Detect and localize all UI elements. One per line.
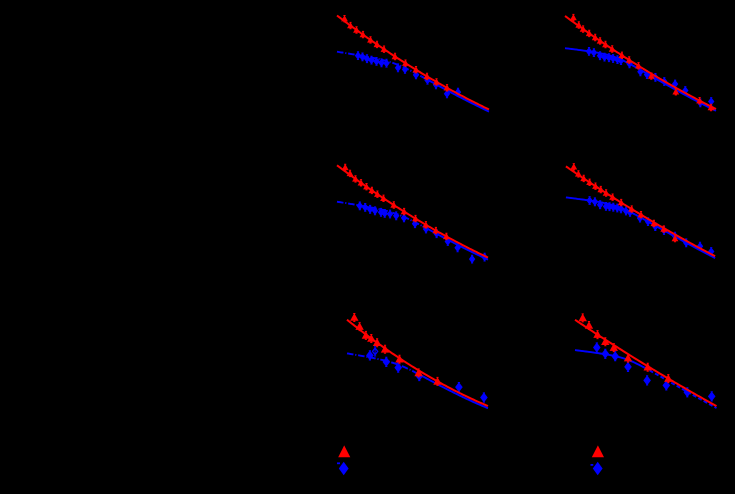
blue model curve left	[347, 353, 424, 377]
panel P3	[337, 164, 488, 264]
blue model curve left	[337, 202, 423, 227]
legend column 1	[337, 445, 350, 475]
blue model curve left	[337, 52, 421, 77]
blue model curve left	[566, 197, 636, 214]
panel P6	[575, 314, 717, 409]
blue model curve right	[423, 226, 488, 260]
red model curve	[347, 320, 488, 406]
blue model curve left	[565, 48, 632, 65]
blue model curve right	[636, 215, 716, 258]
red model curve	[565, 16, 716, 109]
panel P4	[566, 163, 715, 258]
red model curve	[337, 165, 488, 257]
blue model curve right	[424, 377, 488, 408]
blue model curve right	[644, 368, 716, 409]
red model curve	[575, 320, 717, 406]
legend column 2	[591, 445, 605, 475]
blue model curve right	[632, 65, 716, 111]
red model curve	[337, 16, 489, 110]
panel P1	[337, 15, 489, 112]
blue model curve right	[421, 76, 489, 111]
panel P2	[565, 14, 716, 111]
blue model curve left	[575, 350, 644, 367]
red model curve	[566, 166, 715, 256]
panel P5	[347, 313, 488, 408]
